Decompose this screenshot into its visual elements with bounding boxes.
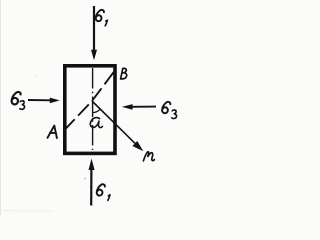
left sigma3 arrowhead (right) [50, 98, 60, 104]
normal n: arrowhead [133, 142, 142, 150]
label alpha (angle) [90, 118, 102, 128]
label B (section end) [121, 68, 127, 79]
label sigma (left) [12, 92, 21, 104]
dashed section plane A-B [64, 69, 116, 131]
right sigma3 arrowhead (left) [122, 104, 133, 110]
label n (normal) [143, 152, 154, 161]
vertical dash-dot centerline [92, 68, 94, 150]
label subscript 3 (right) [172, 110, 177, 119]
scan edge artifact left [0, 0, 2, 215]
angle alpha arc [92, 109, 100, 113]
label A (section end) [48, 126, 57, 138]
normal n: shaft wire [92, 101, 137, 145]
ink speck near bottom arrow [84, 178, 85, 179]
top sigma1 arrowhead (down) [91, 50, 97, 60]
label subscript 3 (left) [20, 101, 25, 110]
ink speck upper left [35, 75, 36, 76]
label sigma (bottom) [97, 184, 105, 195]
bottom sigma1 arrow shaft [90, 168, 92, 206]
top sigma1 arrow shaft [93, 6, 95, 51]
faint bottom smudge [3, 210, 52, 213]
bottom sigma1 arrowhead (up) [89, 159, 95, 171]
label sigma (right) [162, 102, 170, 113]
label subscript 1 (top) [105, 20, 107, 26]
stress element box [65, 66, 115, 154]
background paper [0, 0, 192, 215]
left sigma3 arrow shaft [28, 99, 51, 101]
label subscript 1 (bottom) [108, 195, 110, 201]
label sigma (top) [96, 10, 104, 21]
right sigma3 arrow shaft [132, 106, 156, 108]
